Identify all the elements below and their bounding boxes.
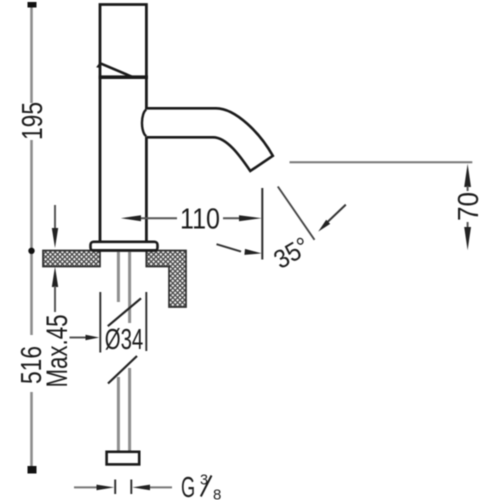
G3/8 left tick	[114, 480, 116, 495]
Ø34 upper break slash	[108, 298, 141, 326]
counter-level dot	[28, 248, 34, 254]
handle joint line	[99, 75, 148, 79]
svg-text:35°: 35°	[268, 231, 314, 275]
hose connector	[107, 452, 140, 465]
G3/8 right tick	[130, 480, 132, 495]
extension line at spout end	[261, 188, 263, 260]
svg-text:Max.45: Max.45	[41, 315, 74, 388]
dimension 70 upper arrow	[464, 164, 471, 187]
Ø34 right tick	[145, 292, 147, 351]
handle lever notch	[96, 61, 101, 68]
Ø34 left tick	[99, 292, 101, 353]
dimension Max.45 lower arrow	[52, 267, 58, 288]
countertop right hatched block	[146, 251, 186, 308]
reference line at outlet level	[290, 161, 473, 163]
spout	[146, 108, 272, 171]
svg-text:Ø34: Ø34	[105, 324, 144, 356]
countertop left hatched block	[43, 251, 100, 267]
svg-text:G: G	[181, 472, 195, 500]
35 degree arrow to extension line	[217, 244, 242, 251]
faucet body outline	[100, 5, 146, 242]
dimension Max.45 upper arrow	[54, 205, 56, 229]
svg-text:70: 70	[453, 192, 485, 221]
top square dot	[28, 2, 37, 8]
svg-text:8: 8	[213, 487, 221, 500]
35 degree arrow to flow line	[327, 205, 346, 223]
G3/8 dimension left line	[74, 486, 97, 488]
svg-text:195: 195	[17, 102, 49, 140]
35 degree flow line	[278, 187, 315, 240]
Ø34 lower break slash	[108, 356, 137, 384]
white backing for Ø34 label	[102, 324, 145, 352]
dimension 70 lower arrow	[467, 222, 469, 228]
dimension 110 left arrow	[121, 215, 141, 221]
supply pipe right edge	[128, 252, 131, 452]
handle lever diagonal	[100, 63, 133, 77]
dimension line 195/516 vertical	[30, 8, 33, 467]
spout left cap arc	[142, 110, 146, 137]
G3/8 dimension right line	[132, 485, 150, 491]
bottom square dot	[28, 466, 37, 474]
svg-text:110: 110	[180, 204, 220, 236]
base flange	[91, 242, 158, 251]
dimension 110 right arrow	[223, 217, 240, 219]
Ø34 arrow	[70, 337, 87, 339]
supply pipe left edge	[117, 252, 120, 452]
